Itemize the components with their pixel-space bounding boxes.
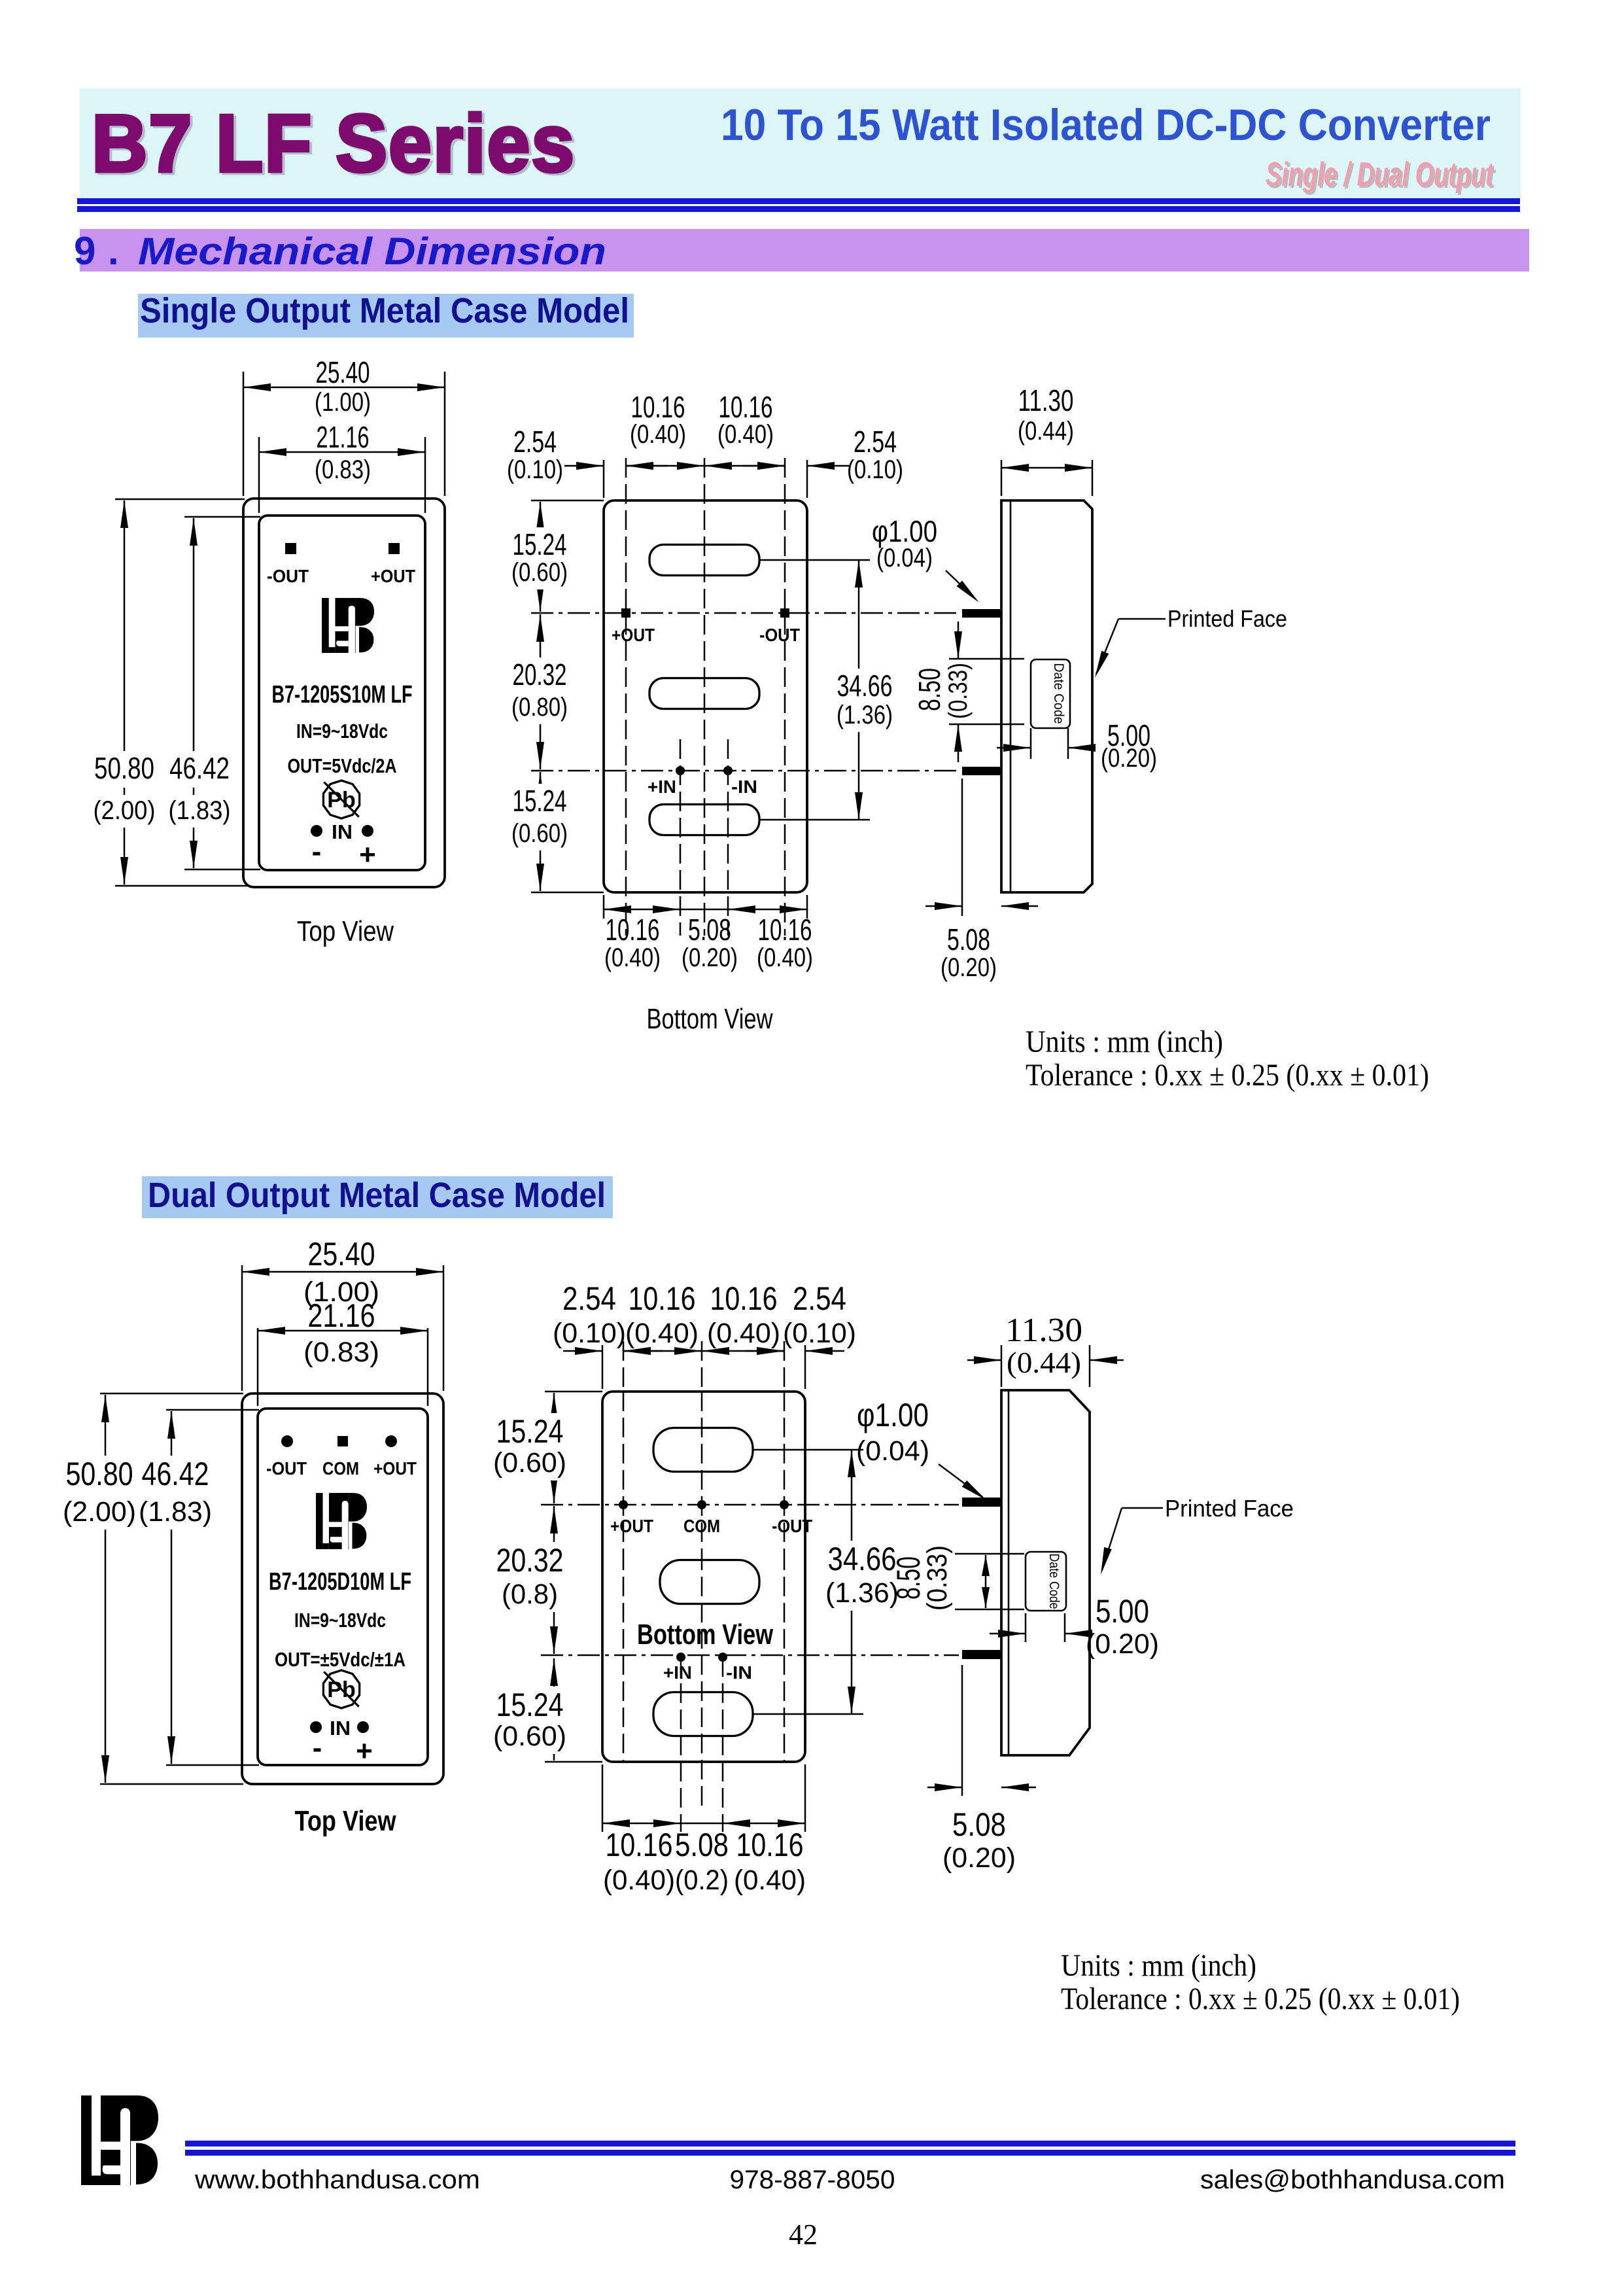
svg-text:(0.83): (0.83) bbox=[315, 455, 371, 484]
svg-text:(0.20): (0.20) bbox=[1086, 1628, 1159, 1660]
svg-text:34.66: 34.66 bbox=[837, 669, 893, 703]
svg-text:(0.83): (0.83) bbox=[303, 1337, 379, 1368]
svg-text:-: - bbox=[312, 835, 322, 867]
svg-text:(0.20): (0.20) bbox=[1101, 744, 1157, 773]
svg-text:(0.10): (0.10) bbox=[847, 455, 903, 484]
svg-text:+OUT: +OUT bbox=[612, 625, 655, 645]
svg-text:2.54: 2.54 bbox=[562, 1280, 616, 1317]
svg-text:+OUT: +OUT bbox=[610, 1516, 653, 1536]
svg-text:-OUT: -OUT bbox=[772, 1516, 812, 1536]
svg-text:-IN: -IN bbox=[731, 777, 757, 797]
svg-text:(0.04): (0.04) bbox=[876, 544, 933, 572]
svg-text:IN=9~18Vdc: IN=9~18Vdc bbox=[294, 1609, 386, 1632]
svg-text:(0.40): (0.40) bbox=[734, 1865, 806, 1896]
svg-text:Tolerance : 0.xx ± 0.25 (0.xx: Tolerance : 0.xx ± 0.25 (0.xx ± 0.01) bbox=[1026, 1058, 1429, 1093]
svg-text:(0.44): (0.44) bbox=[1007, 1346, 1081, 1379]
svg-text:COM: COM bbox=[683, 1516, 720, 1536]
svg-text:978-887-8050: 978-887-8050 bbox=[730, 2165, 895, 2194]
svg-text:5.00: 5.00 bbox=[1096, 1593, 1149, 1630]
svg-text:15.24: 15.24 bbox=[496, 1687, 564, 1723]
svg-text:+OUT: +OUT bbox=[373, 1458, 417, 1479]
svg-text:φ1.00: φ1.00 bbox=[857, 1397, 929, 1433]
svg-text:(1.36): (1.36) bbox=[825, 1577, 899, 1609]
svg-text:(1.83): (1.83) bbox=[169, 796, 231, 825]
svg-text:Bottom View: Bottom View bbox=[637, 1619, 774, 1651]
svg-text:(0.80): (0.80) bbox=[511, 693, 568, 722]
svg-text:.: . bbox=[108, 229, 119, 273]
svg-text:IN: IN bbox=[330, 1717, 351, 1740]
svg-text:(1.83): (1.83) bbox=[139, 1496, 212, 1528]
svg-text:B7-1205S10M LF: B7-1205S10M LF bbox=[272, 681, 413, 709]
svg-text:-OUT: -OUT bbox=[266, 1458, 307, 1479]
svg-text:2.54: 2.54 bbox=[513, 425, 557, 459]
svg-text:+IN: +IN bbox=[648, 777, 676, 797]
svg-text:Units : mm (inch): Units : mm (inch) bbox=[1061, 1948, 1256, 1983]
svg-text:10.16: 10.16 bbox=[629, 1280, 696, 1317]
svg-text:10.16: 10.16 bbox=[758, 913, 812, 947]
svg-text:Printed Face: Printed Face bbox=[1167, 605, 1287, 632]
svg-text:IN: IN bbox=[332, 820, 353, 843]
svg-text:10.16: 10.16 bbox=[606, 1827, 673, 1863]
svg-text:-OUT: -OUT bbox=[267, 566, 309, 586]
svg-text:5.08: 5.08 bbox=[952, 1806, 1006, 1843]
svg-text:sales@bothhandusa.com: sales@bothhandusa.com bbox=[1200, 2165, 1505, 2194]
svg-text:Mechanical Dimension: Mechanical Dimension bbox=[138, 230, 606, 273]
svg-text:50.80: 50.80 bbox=[94, 751, 154, 785]
svg-text:15.24: 15.24 bbox=[513, 527, 567, 561]
svg-text:(0.40): (0.40) bbox=[757, 943, 813, 972]
svg-text:(0.20): (0.20) bbox=[941, 953, 997, 982]
svg-text:(0.40): (0.40) bbox=[707, 1318, 780, 1349]
svg-text:10.16: 10.16 bbox=[606, 913, 660, 947]
svg-text:(0.60): (0.60) bbox=[511, 558, 568, 587]
svg-text:15.24: 15.24 bbox=[513, 784, 567, 818]
svg-text:5.08: 5.08 bbox=[675, 1827, 729, 1863]
svg-text:-IN: -IN bbox=[726, 1662, 752, 1683]
svg-text:(0.60): (0.60) bbox=[493, 1447, 566, 1479]
svg-text:(0.04): (0.04) bbox=[856, 1435, 929, 1467]
svg-text:11.30: 11.30 bbox=[1018, 383, 1074, 417]
svg-text:Single Output Metal Case Model: Single Output Metal Case Model bbox=[140, 291, 629, 330]
svg-text:(0.33): (0.33) bbox=[922, 1545, 953, 1611]
svg-text:-: - bbox=[313, 1732, 322, 1764]
svg-text:Bottom View: Bottom View bbox=[647, 1003, 773, 1035]
svg-text:(1.36): (1.36) bbox=[837, 701, 893, 729]
svg-text:(0.40): (0.40) bbox=[630, 420, 686, 449]
svg-text:10 To 15 Watt Isolated DC-DC C: 10 To 15 Watt Isolated DC-DC Converter bbox=[721, 100, 1491, 150]
svg-text:B7 LF Series: B7 LF Series bbox=[92, 99, 576, 189]
svg-text:2.54: 2.54 bbox=[854, 425, 897, 459]
svg-text:25.40: 25.40 bbox=[308, 1236, 375, 1272]
svg-text:15.24: 15.24 bbox=[496, 1413, 564, 1450]
svg-text:50.80: 50.80 bbox=[66, 1456, 133, 1492]
svg-text:(0.10): (0.10) bbox=[553, 1318, 626, 1349]
svg-text:+: + bbox=[356, 1735, 373, 1767]
svg-text:10.16: 10.16 bbox=[719, 390, 773, 424]
svg-text:Tolerance : 0.xx ± 0.25 (0.xx: Tolerance : 0.xx ± 0.25 (0.xx ± 0.01) bbox=[1061, 1982, 1460, 2016]
svg-text:10.16: 10.16 bbox=[710, 1280, 778, 1317]
svg-text:(2.00): (2.00) bbox=[63, 1496, 136, 1528]
svg-text:Dual Output Metal Case Model: Dual Output Metal Case Model bbox=[148, 1176, 606, 1215]
svg-text:Printed Face: Printed Face bbox=[1165, 1495, 1294, 1522]
svg-text:2.54: 2.54 bbox=[793, 1280, 846, 1317]
svg-text:(0.44): (0.44) bbox=[1018, 417, 1074, 446]
svg-text:10.16: 10.16 bbox=[736, 1827, 804, 1863]
svg-text:5.08: 5.08 bbox=[947, 922, 990, 956]
svg-text:IN=9~18Vdc: IN=9~18Vdc bbox=[296, 720, 388, 743]
svg-text:(0.60): (0.60) bbox=[511, 819, 568, 848]
svg-text:Date Code: Date Code bbox=[1046, 1554, 1062, 1609]
svg-text:(0.2): (0.2) bbox=[675, 1865, 729, 1896]
svg-text:Top View: Top View bbox=[297, 915, 394, 947]
svg-text:10.16: 10.16 bbox=[631, 390, 685, 424]
svg-text:21.16: 21.16 bbox=[308, 1297, 375, 1334]
svg-text:(2.00): (2.00) bbox=[94, 796, 156, 825]
svg-text:(0.10): (0.10) bbox=[507, 455, 563, 484]
svg-text:Units : mm (inch): Units : mm (inch) bbox=[1026, 1025, 1223, 1059]
svg-text:20.32: 20.32 bbox=[496, 1542, 564, 1579]
svg-text:Top View: Top View bbox=[295, 1805, 397, 1837]
svg-text:(0.40): (0.40) bbox=[604, 943, 661, 972]
svg-text:(0.20): (0.20) bbox=[682, 943, 738, 972]
svg-text:(1.00): (1.00) bbox=[315, 388, 371, 417]
svg-text:42: 42 bbox=[789, 2218, 818, 2251]
svg-text:11.30: 11.30 bbox=[1005, 1312, 1082, 1349]
svg-text:(0.10): (0.10) bbox=[783, 1318, 856, 1349]
svg-text:-OUT: -OUT bbox=[759, 625, 800, 645]
svg-text:COM: COM bbox=[322, 1458, 359, 1479]
svg-text:46.42: 46.42 bbox=[142, 1456, 209, 1492]
svg-text:21.16: 21.16 bbox=[317, 420, 370, 454]
svg-text:20.32: 20.32 bbox=[513, 657, 567, 692]
svg-text:+OUT: +OUT bbox=[371, 566, 415, 586]
svg-text:B7-1205D10M LF: B7-1205D10M LF bbox=[269, 1568, 411, 1596]
svg-text:46.42: 46.42 bbox=[169, 751, 230, 785]
svg-text:25.40: 25.40 bbox=[316, 355, 370, 389]
svg-text:5.08: 5.08 bbox=[688, 913, 731, 947]
svg-text:(0.20): (0.20) bbox=[942, 1842, 1016, 1874]
svg-text:(0.40): (0.40) bbox=[625, 1318, 699, 1349]
svg-text:34.66: 34.66 bbox=[828, 1541, 897, 1577]
svg-text:8.50: 8.50 bbox=[912, 668, 946, 711]
svg-text:OUT=±5Vdc/±1A: OUT=±5Vdc/±1A bbox=[275, 1648, 406, 1671]
svg-text:9: 9 bbox=[74, 229, 95, 273]
svg-text:+: + bbox=[359, 839, 376, 871]
svg-text:Date Code: Date Code bbox=[1051, 663, 1066, 724]
svg-text:(0.40): (0.40) bbox=[603, 1865, 675, 1896]
svg-text:OUT=5Vdc/2A: OUT=5Vdc/2A bbox=[288, 754, 397, 777]
svg-text:+IN: +IN bbox=[663, 1662, 692, 1683]
svg-text:(0.8): (0.8) bbox=[502, 1579, 558, 1610]
svg-text:(0.60): (0.60) bbox=[493, 1721, 566, 1752]
svg-text:Single / Dual Output: Single / Dual Output bbox=[1266, 156, 1494, 194]
svg-text:(0.40): (0.40) bbox=[717, 420, 774, 449]
svg-text:(0.33): (0.33) bbox=[944, 663, 973, 719]
svg-text:www.bothhandusa.com: www.bothhandusa.com bbox=[194, 2165, 480, 2194]
